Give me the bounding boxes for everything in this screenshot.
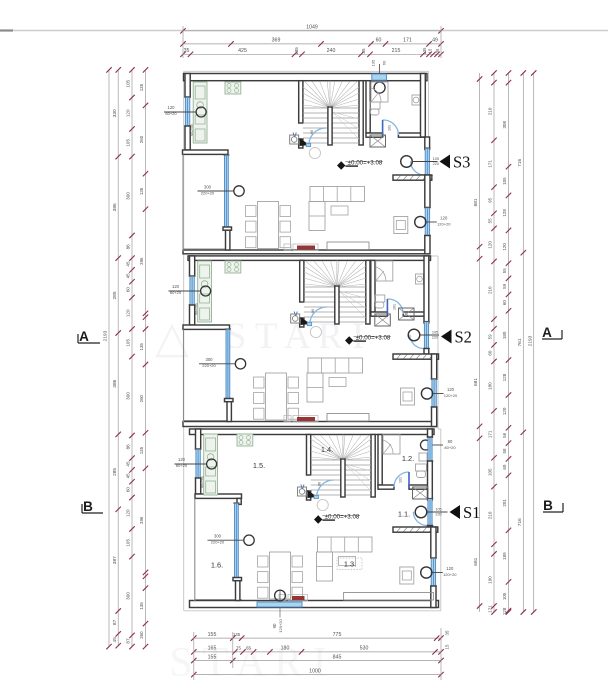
- svg-text:135: 135: [139, 83, 144, 91]
- svg-text:105: 105: [488, 468, 493, 476]
- svg-text:55: 55: [502, 268, 507, 274]
- svg-text:386: 386: [112, 203, 118, 211]
- svg-text:180: 180: [488, 382, 493, 390]
- svg-text:220+20: 220+20: [201, 190, 215, 195]
- svg-text:1.1.: 1.1.: [398, 510, 410, 519]
- svg-text:101: 101: [388, 125, 392, 131]
- svg-text:387: 387: [112, 556, 118, 564]
- svg-text:80+20: 80+20: [444, 445, 456, 450]
- svg-text:135: 135: [139, 343, 144, 351]
- svg-text:120+20: 120+20: [444, 393, 458, 398]
- svg-text:300: 300: [126, 392, 131, 400]
- svg-text:180: 180: [281, 646, 290, 652]
- svg-text:58: 58: [502, 448, 507, 454]
- svg-text:120: 120: [502, 243, 507, 251]
- svg-text:120: 120: [172, 284, 180, 289]
- svg-text:S3: S3: [453, 152, 470, 171]
- svg-text:60: 60: [382, 60, 387, 65]
- svg-text:60: 60: [126, 487, 131, 493]
- svg-text:15: 15: [428, 48, 433, 53]
- svg-text:±0.00=+3.08: ±0.00=+3.08: [348, 160, 383, 167]
- svg-text:105: 105: [435, 508, 441, 512]
- svg-text:330: 330: [112, 109, 118, 117]
- svg-text:45: 45: [126, 261, 131, 267]
- svg-text:681: 681: [473, 378, 479, 386]
- svg-text:56: 56: [502, 432, 507, 438]
- svg-text:60: 60: [502, 300, 507, 306]
- svg-text:120: 120: [178, 457, 186, 462]
- svg-text:87: 87: [126, 638, 131, 644]
- svg-text:210: 210: [488, 286, 493, 294]
- svg-text:59: 59: [502, 283, 507, 289]
- svg-text:369: 369: [272, 38, 281, 44]
- svg-text:135: 135: [139, 602, 144, 610]
- svg-text:105: 105: [126, 339, 131, 347]
- svg-text:285: 285: [112, 291, 118, 299]
- svg-text:B: B: [543, 498, 553, 513]
- svg-text:171: 171: [488, 160, 493, 168]
- svg-text:845: 845: [333, 654, 342, 660]
- svg-text:120: 120: [126, 509, 131, 517]
- svg-text:55: 55: [488, 218, 493, 224]
- svg-text:45: 45: [126, 273, 131, 279]
- svg-text:90: 90: [310, 130, 314, 134]
- svg-text:190: 190: [488, 576, 493, 584]
- svg-text:105: 105: [432, 331, 438, 335]
- svg-text:±0.00=+3.08: ±0.00=+3.08: [325, 514, 360, 521]
- svg-text:240: 240: [327, 48, 336, 54]
- svg-text:60+20: 60+20: [170, 290, 182, 295]
- svg-text:60+20: 60+20: [176, 463, 188, 468]
- svg-text:396: 396: [139, 516, 144, 524]
- svg-text:155: 155: [208, 632, 217, 638]
- svg-text:49: 49: [432, 38, 438, 44]
- svg-text:220+20: 220+20: [202, 363, 216, 368]
- svg-text:90: 90: [318, 482, 322, 486]
- svg-text:59: 59: [488, 334, 493, 340]
- svg-text:±0.00=+3.08: ±0.00=+3.08: [356, 335, 391, 342]
- svg-text:189: 189: [502, 552, 507, 560]
- svg-text:120: 120: [168, 105, 176, 110]
- svg-text:1.6.: 1.6.: [211, 561, 223, 570]
- svg-text:86: 86: [126, 244, 131, 250]
- svg-text:105: 105: [126, 79, 131, 87]
- svg-text:180: 180: [502, 331, 507, 339]
- svg-text:716: 716: [517, 518, 523, 526]
- svg-text:101: 101: [392, 304, 396, 310]
- svg-text:220+20: 220+20: [211, 540, 225, 545]
- svg-text:45: 45: [126, 461, 131, 467]
- svg-text:105: 105: [126, 139, 131, 147]
- svg-text:220: 220: [435, 513, 441, 517]
- svg-text:45: 45: [126, 473, 131, 479]
- svg-text:220: 220: [433, 162, 439, 166]
- svg-text:165: 165: [208, 646, 217, 652]
- svg-text:60: 60: [488, 350, 493, 356]
- svg-text:105: 105: [502, 177, 507, 185]
- svg-text:300: 300: [214, 534, 222, 539]
- svg-text:775: 775: [333, 632, 342, 638]
- svg-text:60: 60: [376, 38, 382, 44]
- svg-text:155: 155: [208, 654, 217, 660]
- svg-text:135: 135: [422, 47, 427, 55]
- svg-text:220: 220: [432, 336, 438, 340]
- svg-text:135: 135: [233, 632, 241, 637]
- svg-text:128: 128: [502, 373, 507, 381]
- svg-text:86: 86: [126, 444, 131, 450]
- svg-text:135: 135: [371, 59, 376, 66]
- svg-text:A: A: [79, 329, 89, 344]
- svg-text:90: 90: [272, 623, 277, 628]
- svg-text:716: 716: [517, 158, 523, 166]
- svg-text:87: 87: [112, 619, 118, 625]
- svg-text:128: 128: [502, 209, 507, 217]
- svg-text:285: 285: [112, 468, 118, 476]
- svg-text:300: 300: [126, 192, 131, 200]
- svg-text:215: 215: [392, 48, 401, 54]
- svg-text:120: 120: [126, 109, 131, 117]
- svg-text:1049: 1049: [306, 25, 318, 31]
- svg-text:60+20: 60+20: [165, 111, 177, 116]
- svg-text:1.3.: 1.3.: [344, 560, 356, 569]
- svg-text:681: 681: [473, 557, 479, 565]
- svg-text:90: 90: [311, 309, 315, 313]
- svg-text:396: 396: [139, 257, 144, 265]
- svg-text:135: 135: [139, 187, 144, 195]
- svg-text:300: 300: [126, 592, 131, 600]
- svg-text:35: 35: [435, 48, 440, 53]
- svg-text:171: 171: [403, 38, 412, 44]
- svg-text:35: 35: [184, 48, 190, 54]
- svg-text:15: 15: [445, 644, 450, 649]
- svg-text:120: 120: [446, 566, 454, 571]
- svg-text:2193: 2193: [103, 330, 109, 341]
- svg-text:1000: 1000: [309, 668, 321, 674]
- svg-text:120: 120: [440, 216, 448, 221]
- svg-text:386: 386: [112, 379, 118, 387]
- svg-text:1.4.: 1.4.: [321, 445, 333, 454]
- svg-text:2193: 2193: [527, 335, 533, 346]
- svg-text:530: 530: [360, 646, 369, 652]
- svg-text:120: 120: [126, 309, 131, 317]
- svg-text:1.5.: 1.5.: [253, 461, 265, 470]
- svg-text:120: 120: [447, 387, 455, 392]
- svg-text:S1: S1: [463, 503, 480, 522]
- svg-text:761: 761: [517, 338, 523, 346]
- svg-text:105: 105: [502, 592, 507, 600]
- svg-text:135: 135: [294, 47, 299, 55]
- svg-text:120+20: 120+20: [437, 222, 451, 227]
- svg-text:35: 35: [445, 630, 450, 635]
- svg-text:105: 105: [126, 539, 131, 547]
- svg-text:171: 171: [488, 430, 493, 438]
- svg-text:260: 260: [139, 631, 144, 639]
- svg-text:1.2.: 1.2.: [402, 454, 414, 463]
- svg-text:681: 681: [473, 198, 479, 206]
- svg-text:201: 201: [502, 499, 507, 507]
- svg-text:128: 128: [502, 607, 507, 615]
- svg-text:120: 120: [488, 241, 493, 249]
- svg-text:300: 300: [204, 184, 212, 189]
- svg-text:65: 65: [246, 646, 252, 651]
- svg-text:75: 75: [236, 646, 241, 651]
- svg-text:101: 101: [399, 477, 403, 483]
- svg-text:260: 260: [139, 135, 144, 143]
- svg-text:425: 425: [238, 48, 247, 54]
- svg-text:35: 35: [361, 48, 366, 54]
- svg-text:135: 135: [139, 446, 144, 454]
- svg-text:60: 60: [502, 464, 507, 470]
- svg-text:120: 120: [502, 407, 507, 415]
- svg-text:210: 210: [488, 107, 493, 115]
- svg-text:120+20: 120+20: [443, 572, 457, 577]
- svg-text:105: 105: [433, 157, 439, 161]
- svg-text:260: 260: [139, 394, 144, 402]
- svg-text:300: 300: [206, 357, 214, 362]
- svg-text:210: 210: [488, 511, 493, 519]
- svg-text:60: 60: [126, 287, 131, 293]
- svg-text:308: 308: [502, 120, 507, 128]
- svg-text:A: A: [542, 325, 552, 340]
- svg-text:45: 45: [112, 637, 118, 643]
- svg-text:B: B: [83, 499, 93, 514]
- svg-text:S2: S2: [455, 327, 472, 346]
- svg-text:80: 80: [448, 439, 453, 444]
- svg-text:171: 171: [488, 605, 493, 613]
- svg-text:120+20: 120+20: [278, 619, 283, 633]
- svg-text:95: 95: [488, 197, 493, 203]
